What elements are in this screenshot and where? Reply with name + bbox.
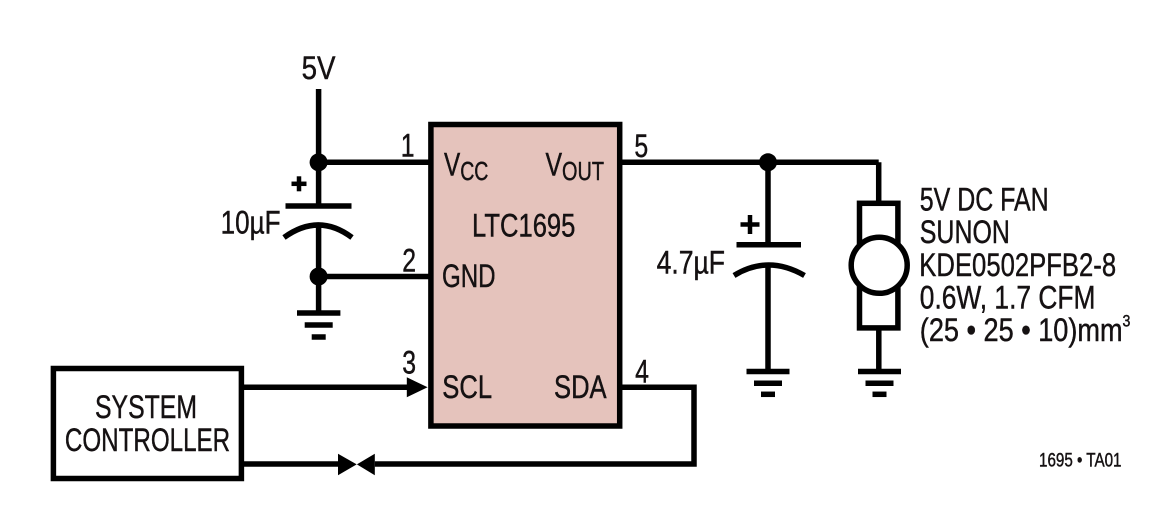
node junction GND [310,268,328,286]
svg-text:3: 3 [402,345,416,381]
capacitor C2 4.7uF plus sign [741,215,760,234]
svg-text:SDA: SDA [554,370,607,406]
fan motor M1 rotor circle [851,237,907,293]
svg-text:0.6W, 1.7 CFM: 0.6W, 1.7 CFM [920,280,1096,316]
svg-text:5V: 5V [302,51,336,86]
wire pin1 from node to IC [319,160,431,166]
wire node to C1 top plate [316,162,322,206]
wire C1 to GND node [316,225,322,277]
svg-text:LTC1695: LTC1695 [472,209,575,245]
wire pin5 VOUT to fan [620,160,879,166]
capacitor C1 10uF plus sign [292,176,307,191]
wire fan drop [876,162,882,205]
svg-text:(25 • 25 • 10)mm3: (25 • 25 • 10)mm3 [920,312,1131,348]
capacitor C2 curved plate [734,265,805,276]
wire node to ground [316,277,322,311]
svg-text:1: 1 [401,128,415,164]
fan annotation text block [919,182,1130,348]
svg-text:KDE0502PFB2-8: KDE0502PFB2-8 [919,248,1116,283]
svg-text:4.7µF: 4.7µF [657,245,725,281]
fan motor M1 body [860,203,898,328]
wire SDA from controller to bowtie [244,461,339,467]
svg-text:2: 2 [402,243,416,279]
svg-text:4: 4 [635,354,649,390]
wire fan to ground [876,328,882,369]
ground symbol G2 [747,372,790,395]
wire pin2 from node to IC [319,274,431,280]
wire node to C2 top plate [765,162,771,245]
svg-text:5V DC FAN: 5V DC FAN [920,182,1049,218]
svg-text:SYSTEM: SYSTEM [95,390,197,426]
system controller box [53,369,241,479]
capacitor C1 curved plate [284,225,352,238]
wire SDA from pin4 right and down [375,387,694,464]
arrowhead bowtie left-pointing [357,454,375,476]
svg-text:SCL: SCL [442,370,492,406]
wire SCL from controller to IC [244,385,408,391]
svg-text:GND: GND [442,259,496,295]
svg-text:CONTROLLER: CONTROLLER [65,422,230,458]
node junction VOUT [759,153,777,171]
capacitor C2 top plate [737,242,802,248]
node junction VCC [310,153,328,171]
svg-text:SUNON: SUNON [920,215,1010,251]
ground symbol G1 [297,313,340,337]
wire C2 to ground [765,263,771,369]
wire 5V stub [316,89,322,162]
capacitor C1 top plate [286,203,352,209]
svg-text:5: 5 [634,129,648,165]
arrowhead into SCL pin [407,377,428,397]
IC U1 LTC1695 body [431,125,620,427]
ground symbol G3 [858,372,901,395]
arrowhead bowtie right-pointing [338,454,357,476]
svg-text:1695 • TA01: 1695 • TA01 [1039,448,1121,470]
svg-text:10µF: 10µF [221,205,281,241]
